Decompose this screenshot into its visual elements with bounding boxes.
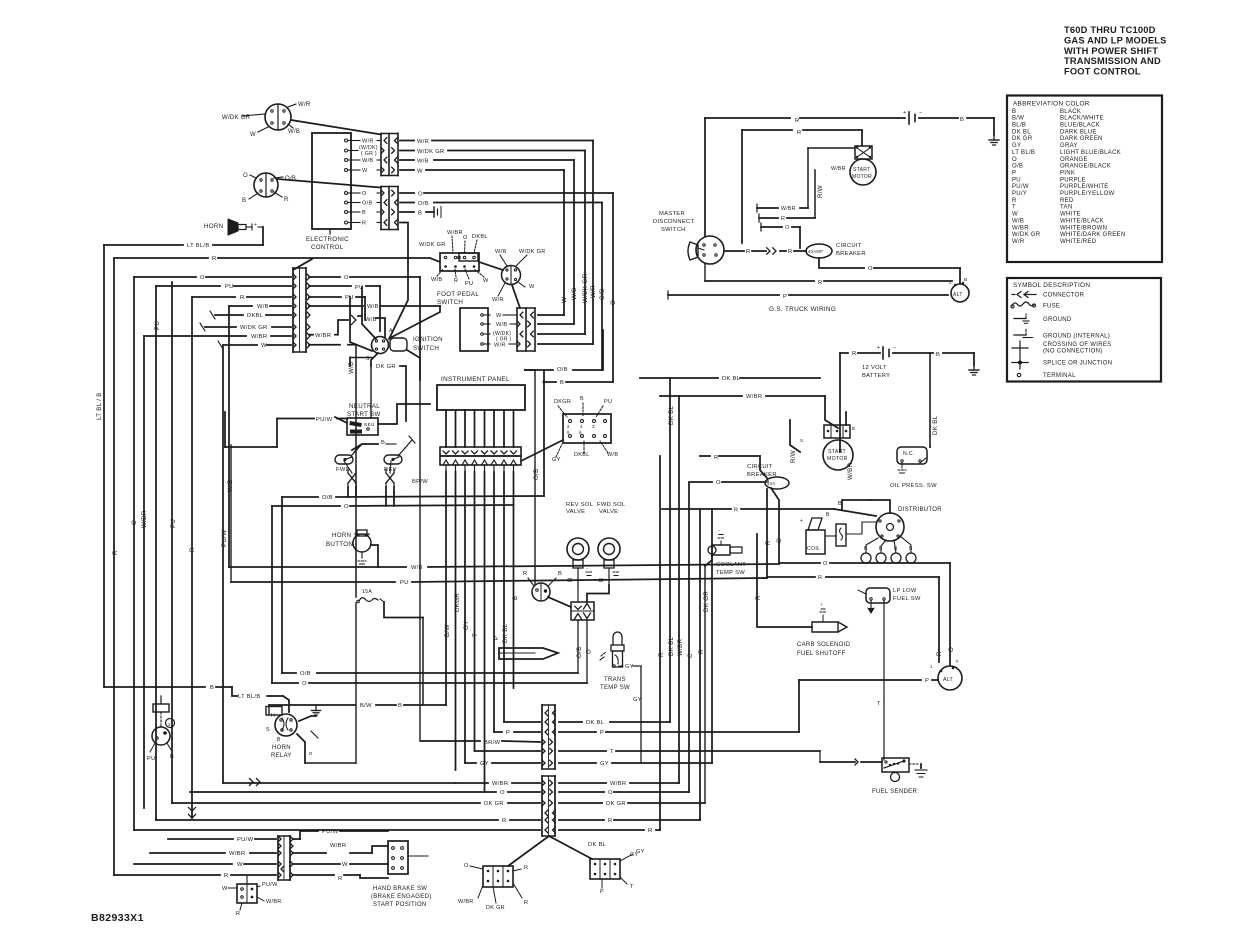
svg-text:PURPLE/YELLOW: PURPLE/YELLOW	[1060, 191, 1115, 197]
svg-text:PU/W: PU/W	[237, 837, 254, 843]
svg-text:W/DK GR: W/DK GR	[582, 274, 589, 303]
svg-text:W/B: W/B	[288, 129, 300, 135]
svg-text:WHITE: WHITE	[1060, 212, 1081, 218]
svg-text:R: R	[755, 595, 762, 600]
svg-text:GY: GY	[636, 849, 645, 855]
svg-text:W/B: W/B	[367, 304, 379, 310]
svg-text:LP LOW: LP LOW	[893, 588, 917, 594]
svg-text:DK GR: DK GR	[606, 801, 626, 807]
svg-text:W/BR: W/BR	[610, 781, 626, 787]
svg-text:PU: PU	[147, 756, 156, 762]
svg-text:P: P	[925, 678, 929, 684]
svg-text:O: O	[1012, 157, 1017, 163]
svg-text:T: T	[1012, 205, 1016, 211]
svg-text:BL/B: BL/B	[1012, 123, 1026, 129]
svg-text:NEUTRAL: NEUTRAL	[349, 403, 380, 410]
svg-text:−: −	[586, 566, 589, 571]
svg-text:W/B: W/B	[362, 158, 373, 164]
svg-text:REV SOL: REV SOL	[566, 502, 594, 508]
svg-text:P: P	[600, 889, 604, 895]
svg-text:DK BL: DK BL	[586, 720, 605, 726]
svg-text:BLACK: BLACK	[1060, 109, 1081, 115]
svg-text:DKBL: DKBL	[574, 452, 590, 458]
svg-text:2: 2	[168, 722, 171, 728]
svg-text:O/B: O/B	[1012, 164, 1023, 170]
svg-text:W/R: W/R	[590, 285, 597, 298]
svg-text:B: B	[964, 277, 968, 283]
svg-text:MOTOR: MOTOR	[827, 456, 848, 462]
svg-text:W/B: W/B	[411, 565, 423, 571]
svg-text:W: W	[561, 297, 568, 303]
svg-text:W/BR: W/BR	[831, 166, 846, 172]
svg-text:6: 6	[579, 430, 582, 435]
svg-text:R: R	[781, 216, 785, 222]
svg-text:W: W	[362, 168, 368, 174]
svg-text:GY: GY	[625, 664, 634, 670]
svg-text:R: R	[284, 197, 289, 203]
svg-text:PURPLE: PURPLE	[1060, 177, 1086, 183]
svg-text:LT BL/B: LT BL/B	[1012, 150, 1035, 156]
svg-text:R: R	[852, 351, 857, 357]
svg-text:O/B: O/B	[576, 646, 583, 658]
svg-text:R: R	[936, 651, 943, 656]
svg-text:O: O	[200, 275, 205, 281]
svg-text:S: S	[266, 727, 270, 733]
svg-text:ORANGE: ORANGE	[1060, 157, 1088, 163]
svg-text:(BRAKE ENGAGED): (BRAKE ENGAGED)	[371, 894, 432, 900]
svg-text:TERMINAL: TERMINAL	[1043, 373, 1076, 379]
svg-text:R: R	[795, 118, 800, 124]
svg-text:G.S. TRUCK WIRING: G.S. TRUCK WIRING	[769, 306, 836, 313]
svg-text:W: W	[261, 343, 267, 349]
svg-text:O: O	[418, 192, 423, 198]
svg-text:FUEL SHUTOFF: FUEL SHUTOFF	[797, 651, 846, 657]
svg-text:TAN: TAN	[1060, 205, 1072, 211]
svg-text:R: R	[714, 455, 719, 461]
svg-text:B: B	[381, 440, 385, 446]
svg-text:DK GR: DK GR	[486, 905, 505, 911]
svg-text:W/BR: W/BR	[447, 230, 463, 236]
svg-text:PU/W: PU/W	[262, 882, 278, 888]
svg-text:W/DK GR: W/DK GR	[417, 149, 445, 155]
svg-text:W: W	[222, 886, 228, 892]
svg-text:DK BL: DK BL	[722, 376, 741, 382]
svg-text:DK GR: DK GR	[1012, 136, 1033, 142]
svg-text:ELECTRONIC: ELECTRONIC	[306, 236, 349, 243]
svg-text:−: −	[718, 528, 721, 533]
svg-text:+: +	[820, 602, 823, 607]
svg-text:DK GR: DK GR	[376, 364, 396, 370]
svg-text:BUTTON: BUTTON	[326, 541, 353, 548]
svg-text:N.C.: N.C.	[903, 451, 915, 457]
svg-text:COIL: COIL	[807, 546, 820, 552]
svg-text:IGNITION: IGNITION	[413, 336, 443, 343]
svg-text:BR/W: BR/W	[484, 740, 501, 746]
svg-text:W/DK GR: W/DK GR	[419, 242, 446, 248]
svg-text:P: P	[1012, 170, 1016, 176]
svg-text:R: R	[224, 873, 229, 879]
svg-text:O/B: O/B	[300, 671, 311, 677]
svg-text:B/W: B/W	[444, 624, 451, 637]
svg-text:LIGHT BLUE/BLACK: LIGHT BLUE/BLACK	[1060, 150, 1121, 156]
svg-text:W/R: W/R	[362, 139, 374, 145]
svg-text:O: O	[243, 173, 248, 179]
svg-text:GY: GY	[552, 457, 561, 463]
svg-text:R: R	[236, 911, 240, 917]
svg-text:W/B: W/B	[348, 361, 355, 374]
svg-text:#: #	[956, 659, 959, 664]
svg-text:R: R	[189, 547, 196, 552]
svg-text:W/R: W/R	[1012, 239, 1025, 245]
svg-text:SWITCH: SWITCH	[413, 345, 439, 352]
svg-text:ALT: ALT	[943, 677, 954, 683]
svg-text:FUSE: FUSE	[1043, 304, 1060, 310]
svg-text:PU: PU	[400, 580, 409, 586]
svg-text:40AMP: 40AMP	[808, 249, 823, 254]
svg-text:W/DK GR: W/DK GR	[222, 115, 251, 121]
svg-text:CONTROL: CONTROL	[311, 244, 344, 251]
svg-text:W/B: W/B	[496, 322, 507, 328]
svg-text:B: B	[826, 512, 830, 518]
svg-text:+: +	[254, 222, 257, 228]
svg-text:PU/W: PU/W	[322, 829, 339, 835]
svg-text:W/BR: W/BR	[677, 638, 684, 656]
svg-text:GY: GY	[633, 697, 642, 703]
svg-text:WHITE/RED: WHITE/RED	[1060, 239, 1097, 245]
svg-text:HORN: HORN	[204, 223, 223, 230]
svg-text:5: 5	[567, 430, 570, 435]
svg-text:B: B	[242, 198, 246, 204]
svg-text:MASTER: MASTER	[659, 211, 685, 217]
svg-text:PU: PU	[225, 284, 234, 290]
svg-text:ABBREVIATION COLOR: ABBREVIATION COLOR	[1013, 101, 1090, 108]
svg-text:VALVE: VALVE	[566, 509, 585, 515]
svg-text:W: W	[250, 132, 256, 138]
svg-text:W/BR: W/BR	[315, 333, 331, 339]
svg-text:W/R: W/R	[417, 139, 429, 145]
svg-text:O: O	[131, 520, 138, 525]
svg-text:WHITE/BROWN: WHITE/BROWN	[1060, 225, 1107, 231]
svg-text:1: 1	[930, 664, 933, 669]
svg-text:W/BR: W/BR	[251, 334, 267, 340]
svg-text:O/B: O/B	[599, 288, 606, 300]
svg-text:R: R	[818, 575, 822, 581]
svg-text:W/B: W/B	[571, 287, 578, 300]
svg-text:START: START	[828, 449, 847, 455]
svg-text:BATTERY: BATTERY	[862, 373, 890, 379]
svg-text:B: B	[558, 571, 562, 577]
svg-text:W/B: W/B	[431, 277, 442, 283]
svg-text:START POSITION: START POSITION	[373, 902, 427, 908]
svg-text:LT BL/B: LT BL/B	[238, 694, 261, 700]
svg-text:O: O	[463, 235, 468, 241]
svg-text:W/BR: W/BR	[847, 462, 854, 480]
svg-text:W: W	[237, 862, 243, 868]
svg-text:W/BR: W/BR	[229, 851, 245, 857]
svg-text:B: B	[418, 211, 422, 217]
svg-text:R: R	[338, 876, 343, 882]
svg-text:PU/W: PU/W	[316, 417, 333, 423]
svg-text:W/R: W/R	[298, 102, 311, 108]
svg-text:B: B	[936, 352, 940, 358]
svg-text:W/BR: W/BR	[330, 843, 346, 849]
svg-text:LT BL / B: LT BL / B	[96, 392, 103, 420]
svg-text:O: O	[344, 504, 349, 510]
svg-text:+: +	[903, 110, 907, 116]
svg-text:R: R	[746, 249, 751, 255]
svg-text:DK BL: DK BL	[502, 623, 509, 643]
svg-text:RED: RED	[1060, 198, 1074, 204]
svg-text:α: α	[309, 751, 312, 757]
svg-text:O: O	[823, 561, 828, 567]
svg-text:W: W	[496, 313, 502, 319]
svg-text:R: R	[608, 818, 613, 824]
svg-text:HORN: HORN	[332, 532, 351, 539]
svg-text:B82933X1: B82933X1	[91, 912, 144, 924]
svg-text:DK GR: DK GR	[703, 591, 710, 612]
svg-text:B: B	[852, 426, 855, 431]
svg-text:W/B: W/B	[1012, 218, 1024, 224]
svg-text:INSTRUMENT PANEL: INSTRUMENT PANEL	[441, 376, 510, 383]
svg-text:W/R: W/R	[492, 297, 504, 303]
svg-text:START: START	[853, 167, 870, 173]
svg-text:PU: PU	[604, 399, 612, 405]
svg-text:O: O	[716, 480, 721, 486]
svg-text:R: R	[1012, 198, 1017, 204]
svg-text:DKGR: DKGR	[454, 593, 461, 612]
svg-text:R: R	[567, 577, 574, 582]
svg-text:O: O	[776, 538, 783, 543]
svg-text:P: P	[506, 730, 510, 736]
svg-text:WHITE/DARK GREEN: WHITE/DARK GREEN	[1060, 232, 1125, 238]
svg-text:O/B: O/B	[322, 495, 333, 501]
svg-text:T: T	[877, 701, 881, 707]
svg-text:R: R	[454, 278, 458, 284]
svg-text:SWITCH: SWITCH	[661, 227, 686, 233]
svg-text:W/B: W/B	[607, 452, 618, 458]
svg-text:FUEL SW: FUEL SW	[893, 596, 921, 602]
svg-text:W: W	[529, 284, 535, 290]
svg-text:B: B	[398, 703, 402, 709]
svg-text:OIL PRESS. SW: OIL PRESS. SW	[890, 483, 937, 489]
svg-text:R: R	[788, 249, 793, 255]
svg-text:C: C	[687, 653, 694, 658]
svg-text:B: B	[560, 380, 564, 386]
svg-text:B: B	[512, 596, 519, 600]
svg-text:DKBL: DKBL	[247, 313, 264, 319]
svg-text:B: B	[362, 210, 366, 216]
svg-text:B: B	[960, 117, 964, 123]
svg-text:PINK: PINK	[1060, 170, 1075, 176]
svg-text:R/W: R/W	[817, 185, 824, 198]
svg-text:DK GR: DK GR	[484, 801, 504, 807]
svg-text:R: R	[818, 280, 823, 286]
svg-text:BLUE/BLACK: BLUE/BLACK	[1060, 123, 1100, 129]
svg-text:+: +	[800, 518, 803, 524]
svg-text:PU/W: PU/W	[221, 530, 228, 547]
svg-text:R/W: R/W	[790, 450, 797, 463]
svg-text:W/B: W/B	[365, 317, 377, 323]
svg-text:W/DK GR: W/DK GR	[240, 325, 268, 331]
svg-text:DK BL: DK BL	[668, 405, 675, 425]
svg-text:DKGR: DKGR	[554, 399, 571, 405]
svg-text:H: H	[271, 713, 275, 719]
svg-text:R: R	[765, 540, 772, 545]
svg-text:GRAY: GRAY	[1060, 143, 1078, 149]
svg-text:T: T	[630, 884, 634, 890]
svg-text:RELAY: RELAY	[271, 753, 292, 759]
svg-text:O: O	[608, 790, 613, 796]
svg-text:PU: PU	[465, 281, 473, 287]
svg-text:O: O	[344, 275, 349, 281]
svg-text:W/R: W/R	[494, 343, 506, 349]
svg-text:HAND BRAKE SW: HAND BRAKE SW	[373, 886, 427, 892]
svg-text:W: W	[342, 862, 348, 868]
svg-text:GY: GY	[1012, 143, 1021, 149]
svg-text:W/BR: W/BR	[492, 781, 508, 787]
svg-text:B: B	[277, 737, 281, 743]
svg-text:FOOT PEDAL: FOOT PEDAL	[437, 291, 479, 298]
svg-text:CIRCUIT: CIRCUIT	[836, 243, 862, 249]
svg-text:SYMBOL DESCRIPTION: SYMBOL DESCRIPTION	[1013, 282, 1090, 289]
svg-text:WHITE/BLACK: WHITE/BLACK	[1060, 218, 1104, 224]
svg-text:W/BR: W/BR	[781, 206, 796, 212]
svg-text:PU: PU	[154, 321, 161, 330]
svg-text:CONNECTOR: CONNECTOR	[1043, 293, 1085, 299]
svg-text:O: O	[302, 681, 307, 687]
svg-text:ORANGE/BLACK: ORANGE/BLACK	[1060, 164, 1111, 170]
svg-text:DKBL: DKBL	[472, 234, 488, 240]
svg-text:FOOT CONTROL: FOOT CONTROL	[1064, 67, 1141, 77]
svg-text:+: +	[877, 345, 881, 351]
svg-text:BLACK/WHITE: BLACK/WHITE	[1060, 116, 1104, 122]
svg-text:WITH POWER SHIFT: WITH POWER SHIFT	[1064, 46, 1158, 56]
svg-text:O: O	[464, 863, 469, 869]
svg-text:P: P	[783, 294, 787, 300]
svg-text:COOLANT: COOLANT	[716, 562, 746, 568]
svg-text:W: W	[483, 278, 489, 284]
svg-text:FUEL SENDER: FUEL SENDER	[872, 789, 917, 795]
svg-text:2: 2	[949, 280, 952, 285]
svg-text:R: R	[658, 652, 665, 657]
svg-text:CROSSING OF WIRES: CROSSING OF WIRES	[1043, 342, 1111, 348]
svg-text:3: 3	[592, 424, 595, 429]
svg-text:START SW: START SW	[347, 411, 381, 418]
svg-text:W/BR: W/BR	[1012, 225, 1029, 231]
svg-text:FWD SOL: FWD SOL	[597, 502, 626, 508]
svg-text:O: O	[610, 300, 617, 305]
svg-text:−: −	[919, 110, 923, 116]
svg-text:TEMP SW: TEMP SW	[600, 685, 630, 691]
svg-text:B/W: B/W	[360, 703, 372, 709]
svg-text:B: B	[598, 578, 605, 582]
svg-text:R: R	[502, 818, 507, 824]
svg-text:PU/W: PU/W	[1012, 184, 1029, 190]
svg-text:W: W	[417, 169, 423, 175]
svg-text:O/B: O/B	[418, 201, 429, 207]
svg-text:W/B: W/B	[417, 159, 429, 165]
svg-text:W/B: W/B	[257, 304, 269, 310]
svg-text:PU: PU	[1012, 177, 1021, 183]
svg-text:2: 2	[567, 424, 570, 429]
svg-text:DK BL: DK BL	[588, 842, 607, 848]
svg-text:W/BR: W/BR	[458, 899, 474, 905]
svg-text:W/DK GR: W/DK GR	[1012, 232, 1041, 238]
svg-text:R: R	[112, 550, 119, 555]
svg-text:R: R	[362, 221, 366, 227]
svg-text:O/B: O/B	[557, 367, 568, 373]
svg-text:DARK GREEN: DARK GREEN	[1060, 136, 1103, 142]
svg-text:ALT: ALT	[953, 292, 963, 298]
svg-text:BREAKER: BREAKER	[836, 251, 866, 257]
svg-text:R: R	[240, 295, 245, 301]
svg-text:SPLICE OR JUNCTION: SPLICE OR JUNCTION	[1043, 361, 1112, 367]
svg-text:PU/Y: PU/Y	[1012, 191, 1027, 197]
svg-text:(NO CONNECTION): (NO CONNECTION)	[1043, 349, 1103, 355]
svg-text:PURPLE/WHITE: PURPLE/WHITE	[1060, 184, 1109, 190]
svg-text:DK BL: DK BL	[932, 415, 939, 435]
svg-text:R: R	[648, 828, 653, 834]
svg-text:TRANSMISSION AND: TRANSMISSION AND	[1064, 56, 1161, 66]
svg-text:O/B: O/B	[533, 468, 540, 480]
svg-text:O: O	[785, 225, 790, 231]
svg-text:DK BL: DK BL	[1012, 129, 1031, 135]
svg-text:GAS AND LP MODELS: GAS AND LP MODELS	[1064, 35, 1167, 45]
svg-text:S: S	[800, 438, 803, 443]
svg-text:DK BL: DK BL	[668, 636, 675, 656]
svg-text:GROUND: GROUND	[1043, 317, 1072, 323]
svg-text:12 VOLT: 12 VOLT	[862, 365, 887, 371]
svg-text:T: T	[472, 633, 479, 637]
svg-text:GY: GY	[600, 761, 609, 767]
svg-text:−: −	[893, 345, 897, 351]
svg-text:B: B	[210, 685, 214, 691]
svg-text:LT BL/B: LT BL/B	[187, 243, 210, 249]
svg-text:T: T	[610, 749, 614, 755]
svg-text:O: O	[586, 649, 593, 654]
svg-text:TRANS: TRANS	[604, 677, 626, 683]
svg-text:O: O	[948, 647, 955, 652]
svg-text:R: R	[524, 900, 528, 906]
svg-text:GY: GY	[480, 761, 489, 767]
svg-text:W/BR: W/BR	[141, 510, 148, 528]
svg-text:HORN: HORN	[272, 745, 291, 751]
svg-text:O: O	[362, 191, 367, 197]
svg-text:W/BR: W/BR	[746, 394, 762, 400]
svg-text:DARK BLUE: DARK BLUE	[1060, 129, 1097, 135]
svg-text:SWITCH: SWITCH	[437, 299, 463, 306]
svg-text:TEMP SW: TEMP SW	[716, 570, 745, 576]
svg-text:B: B	[1012, 109, 1016, 115]
svg-text:W/BR: W/BR	[266, 899, 282, 905]
svg-text:MOTOR: MOTOR	[852, 174, 872, 180]
svg-text:B: B	[580, 396, 584, 402]
svg-text:O/B: O/B	[362, 201, 373, 207]
svg-text:B: B	[170, 754, 174, 760]
svg-text:CARB SOLENOID: CARB SOLENOID	[797, 642, 851, 648]
svg-text:W/DK GR: W/DK GR	[519, 249, 546, 255]
svg-text:O: O	[868, 266, 873, 272]
svg-text:P: P	[600, 730, 604, 736]
svg-text:R: R	[212, 256, 217, 262]
svg-text:W: W	[1012, 212, 1018, 218]
svg-text:T60D THRU TC100D: T60D THRU TC100D	[1064, 25, 1156, 35]
svg-text:15A: 15A	[362, 589, 372, 595]
svg-text:DISCONNECT: DISCONNECT	[653, 219, 694, 225]
svg-text:DISTRIBUTOR: DISTRIBUTOR	[898, 507, 942, 513]
svg-text:GY: GY	[463, 620, 470, 630]
svg-text:( GR ): ( GR )	[361, 151, 377, 157]
